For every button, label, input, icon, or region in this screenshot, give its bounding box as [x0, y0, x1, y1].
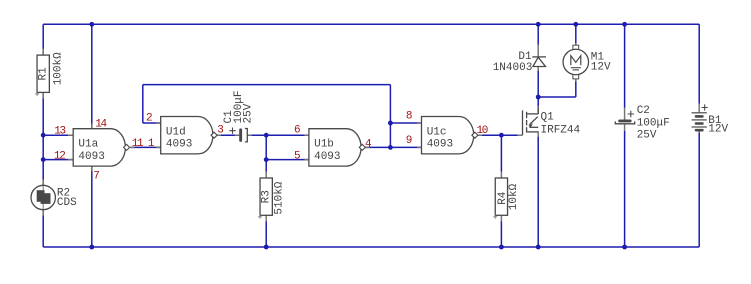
pin stub Q1 gate	[518, 134, 523, 136]
wire node to U1c pin 9	[390, 146, 421, 148]
svg-text:14: 14	[95, 119, 107, 131]
wire top supply rail	[43, 23, 699, 25]
svg-text:9: 9	[406, 135, 413, 147]
capacitor C1	[239, 128, 242, 142]
junction GND-pin7	[89, 245, 94, 250]
svg-text:U1a: U1a	[78, 139, 98, 151]
NAND gate U1b	[309, 129, 361, 166]
wire R4 bottom to ground rail	[500, 221, 502, 247]
photoresistor R2	[31, 185, 55, 209]
junction VCC-pin14	[89, 22, 94, 27]
pin stub Q1 drain	[537, 106, 539, 114]
pin stub U1a pin 7	[91, 166, 93, 171]
NAND gate U1d	[161, 117, 213, 154]
svg-text:CDS: CDS	[57, 197, 77, 209]
svg-text:3: 3	[217, 124, 224, 136]
pin stub R3 top	[265, 172, 267, 178]
wire D1 top from rail	[537, 24, 539, 46]
pin stub C1 left	[235, 134, 239, 136]
svg-text:510kΩ: 510kΩ	[273, 181, 285, 214]
pin stub U1d pin 3 output	[217, 134, 221, 136]
junction node C pin4-pin9	[388, 145, 393, 150]
pin stub B1 plus	[698, 104, 700, 113]
pin stub M1 top	[575, 43, 577, 46]
junction node B C1-pin6	[264, 133, 269, 138]
wire left branch R1-R2	[42, 24, 44, 55]
pin stub R3 bottom	[265, 216, 267, 222]
svg-text:Q1: Q1	[541, 111, 555, 123]
junction node B pin5-R3	[264, 157, 269, 162]
wire B1 to ground rail	[698, 132, 700, 248]
svg-text:R1: R1	[38, 67, 50, 81]
junction node A pin12	[41, 157, 46, 162]
svg-text:1: 1	[148, 138, 155, 150]
svg-text:1N4003: 1N4003	[493, 62, 533, 74]
svg-text:U1c: U1c	[427, 126, 447, 138]
resistor R1	[37, 55, 49, 92]
svg-text:12: 12	[54, 150, 65, 162]
svg-text:2: 2	[146, 112, 153, 124]
pin stub R4 bottom	[500, 216, 502, 222]
wire R3 bottom to ground rail	[265, 221, 267, 247]
pin stub C2 top	[624, 108, 626, 120]
svg-text:12V: 12V	[708, 124, 728, 136]
wire Q1 source to ground rail	[537, 136, 539, 248]
svg-text:R3: R3	[261, 190, 273, 203]
wire node to U1b pin 6	[266, 134, 309, 136]
wire D1 bottom to drain node	[537, 70, 539, 98]
wire U1a input pin 12	[43, 159, 73, 161]
svg-text:U1d: U1d	[166, 126, 186, 138]
wire U1c output pin 10 to Q1 gate	[478, 134, 518, 136]
wire C2 from top rail	[624, 24, 626, 108]
junction GND-Q1 source	[536, 245, 541, 250]
pin stub D1 anode	[537, 67, 539, 72]
junction node D gate-R4	[499, 133, 504, 138]
junction GND-R4	[499, 245, 504, 250]
svg-text:U1b: U1b	[314, 139, 334, 151]
svg-text:8: 8	[406, 111, 413, 123]
svg-text:12V: 12V	[591, 62, 611, 74]
wire U1a input pin 13	[43, 134, 73, 136]
svg-text:4093: 4093	[427, 139, 453, 151]
resistor R3	[260, 178, 272, 215]
wire C1 to node	[247, 134, 266, 136]
NAND gate U1a	[73, 129, 125, 166]
svg-text:25V: 25V	[637, 130, 657, 142]
wire drain node to M1 bottom	[538, 96, 576, 98]
svg-text:6: 6	[294, 124, 301, 136]
wire B1 from top rail	[698, 24, 700, 104]
junction node A pin13	[41, 133, 46, 138]
junction GND-R3	[264, 245, 269, 250]
svg-text:13: 13	[54, 126, 65, 138]
svg-text:4: 4	[365, 138, 372, 150]
pin stub B1 minus	[698, 131, 700, 133]
wire bottom ground rail	[43, 246, 699, 248]
junction node E drain-D1-M1	[536, 95, 541, 100]
svg-text:10kΩ: 10kΩ	[508, 183, 520, 210]
pin stub R4 top	[500, 172, 502, 178]
svg-text:11: 11	[132, 138, 144, 150]
svg-text:IRFZ44: IRFZ44	[541, 125, 581, 137]
svg-text:4093: 4093	[314, 151, 340, 163]
pin stub U1c pin 9	[417, 146, 422, 148]
pin stub U1b pin 6	[304, 134, 309, 136]
svg-text:4093: 4093	[78, 151, 104, 163]
svg-text:25V: 25V	[243, 103, 255, 123]
wire U1c pin 8	[390, 122, 421, 124]
resistor R4	[495, 178, 507, 215]
MOSFET Q1	[522, 110, 524, 135]
pin stub U1a pin 12	[68, 159, 73, 161]
battery B1	[692, 112, 707, 114]
svg-text:5: 5	[294, 150, 301, 162]
wire U1d output to C1	[217, 134, 240, 136]
pin stub R1 top	[42, 49, 44, 56]
wire M1 top from rail	[575, 24, 577, 45]
pin stub R2 top	[42, 180, 44, 186]
motor M1	[573, 45, 579, 50]
wire U1b pin 5	[266, 159, 309, 161]
pin stub U1d pin 1	[156, 146, 161, 148]
pin stub U1d pin 2	[156, 122, 161, 124]
wire C2 to ground rail	[624, 131, 626, 248]
wire U1b output pin 4 to node	[365, 146, 390, 148]
svg-text:100μF: 100μF	[637, 118, 670, 130]
wire feedback left drop to U1d pin 2	[142, 85, 144, 123]
pin stub C1 right	[247, 134, 251, 136]
junction VCC-C2	[622, 22, 627, 27]
pin stub R1 bottom	[42, 92, 44, 99]
pin stub R2 bottom	[42, 210, 44, 216]
svg-text:4093: 4093	[166, 139, 192, 151]
wire U1a pin 7 to bottom rail	[91, 166, 93, 247]
pin stub U1b pin 4 output	[365, 146, 369, 148]
NAND gate U1c	[422, 117, 474, 154]
pin stub U1c pin 8	[417, 122, 422, 124]
wire node drop to pin 5 and R3	[265, 135, 267, 172]
pin stub U1a pin 11 output	[130, 146, 134, 148]
junction VCC-D1	[536, 22, 541, 27]
wire gate node drop to R4	[500, 135, 502, 172]
wire Q1 drain up to node	[537, 97, 539, 107]
svg-text:C2: C2	[637, 105, 650, 117]
svg-text:7: 7	[93, 170, 100, 182]
wire feedback net top	[143, 84, 391, 86]
pin stub U1a pin 13	[68, 134, 73, 136]
svg-text:10: 10	[477, 125, 488, 137]
junction VCC-M1	[573, 22, 578, 27]
junction GND-C2	[622, 245, 627, 250]
pin line through R2	[42, 185, 44, 209]
diode D1	[532, 56, 546, 58]
pin stub D1 cathode	[537, 45, 539, 57]
svg-text:R4: R4	[497, 191, 509, 205]
pin stub C2 bottom	[624, 124, 626, 131]
pin stub U1b pin 5	[304, 159, 309, 161]
junction node C pin8	[388, 121, 393, 126]
capacitor C2	[618, 120, 631, 123]
wire feedback right drop to U1c inputs	[389, 85, 391, 148]
wire M1 bottom drop	[575, 81, 577, 98]
pin stub Q1 source	[537, 131, 539, 137]
pin stub M1 bottom	[575, 79, 577, 82]
pin stub U1c pin 10 output	[478, 134, 482, 136]
wire U1a output to U1d pin 1	[130, 146, 161, 148]
wire U1a pin 14 from top rail	[91, 24, 93, 128]
svg-text:100kΩ: 100kΩ	[52, 52, 64, 85]
pin stub U1a pin 14	[91, 124, 93, 129]
